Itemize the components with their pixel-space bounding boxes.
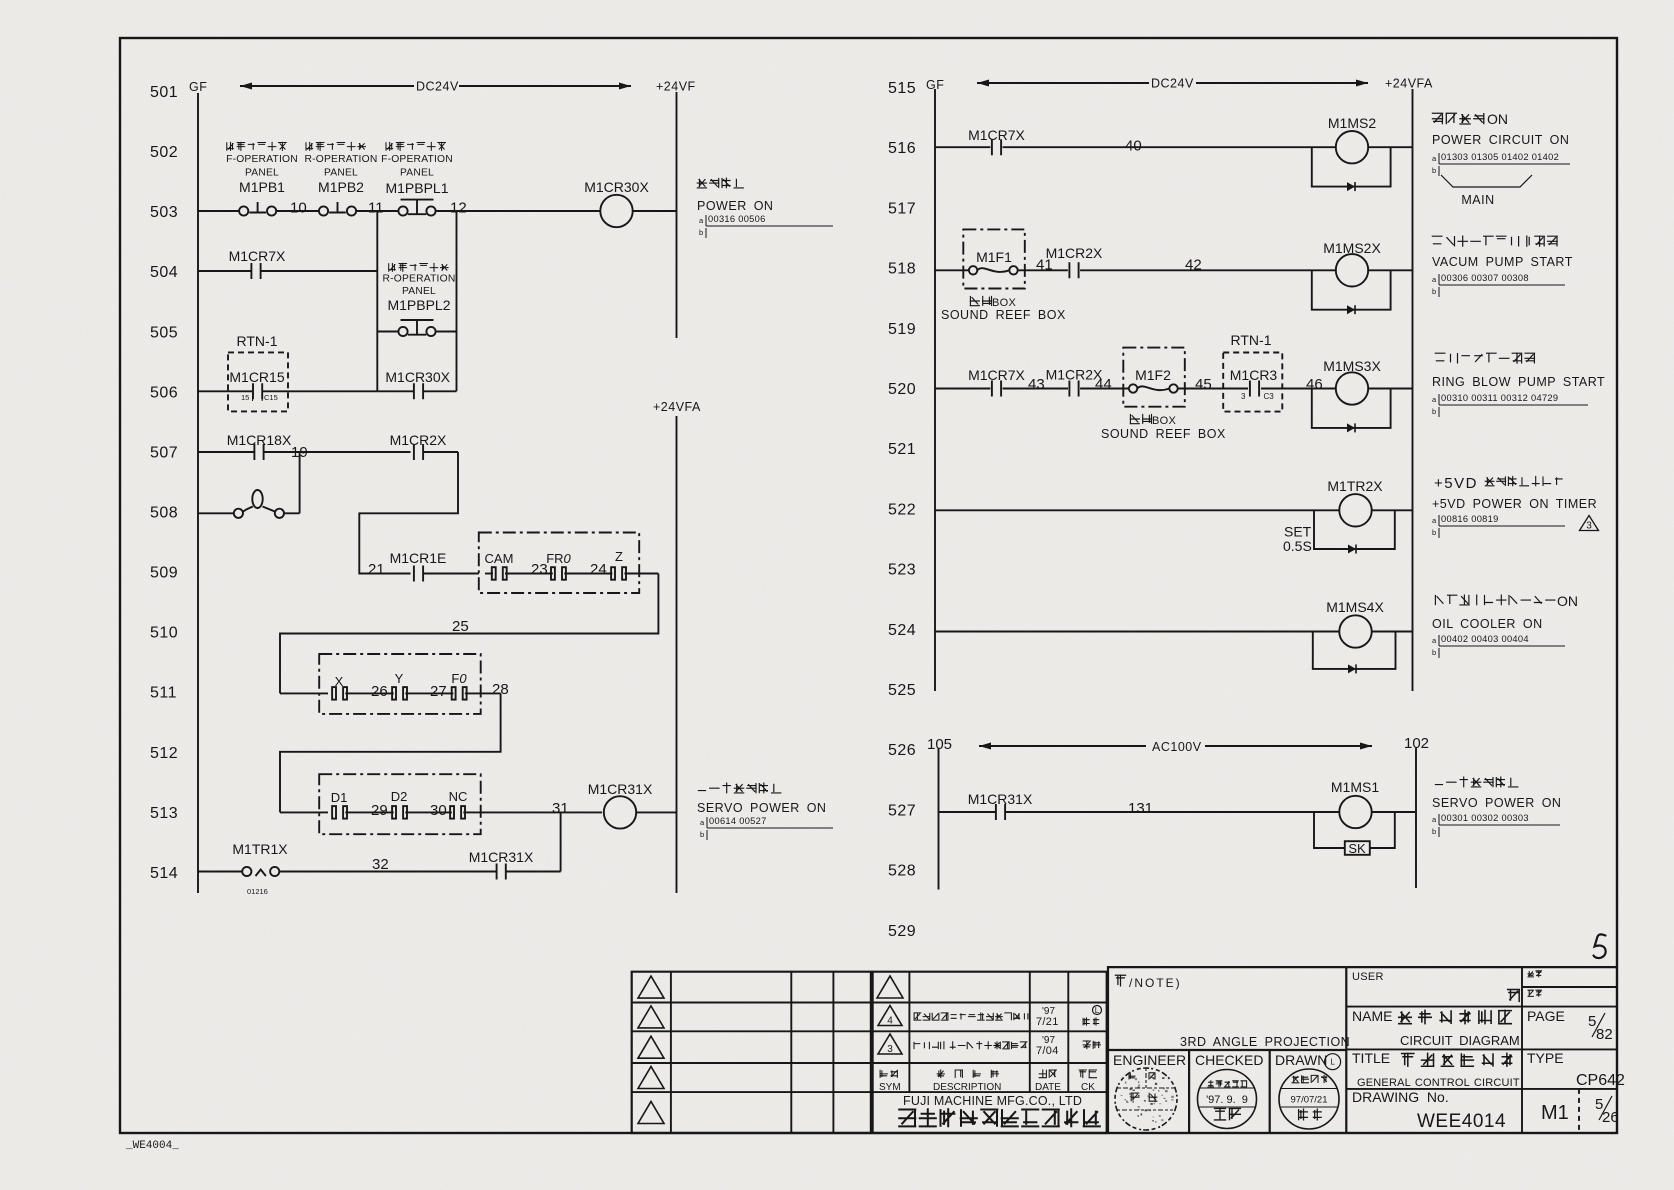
svg-text:AC100V: AC100V bbox=[1152, 740, 1202, 754]
svg-text:00310 00311 00312 04729: 00310 00311 00312 04729 bbox=[1441, 393, 1558, 403]
wire rung513 c bbox=[405, 811, 452, 813]
wire rung503 segment d bbox=[435, 210, 600, 212]
svg-text:509: 509 bbox=[150, 565, 178, 582]
fuse M1F2 bbox=[1129, 384, 1137, 392]
label comment 防音BOX (M1F1) bbox=[970, 296, 993, 306]
svg-text:DATE: DATE bbox=[1035, 1082, 1061, 1093]
contact M1CR15 bbox=[253, 383, 262, 399]
svg-text:+24VF: +24VF bbox=[656, 80, 696, 94]
svg-text:M1CR3: M1CR3 bbox=[1230, 367, 1278, 383]
wire rung527 c bbox=[1372, 811, 1415, 813]
svg-text:GF: GF bbox=[189, 80, 207, 94]
svg-text:ENGINEER: ENGINEER bbox=[1113, 1052, 1186, 1068]
label 生番 bbox=[1528, 990, 1543, 997]
wire rung504 b bbox=[260, 270, 377, 272]
wire rung520 a bbox=[935, 388, 990, 390]
wire rung507 a bbox=[198, 451, 255, 453]
svg-text:SYM: SYM bbox=[879, 1082, 901, 1093]
wire rung518 a bbox=[935, 269, 969, 271]
label comment サーボ電源入り rung513 bbox=[698, 783, 782, 794]
svg-text:M1CR2X: M1CR2X bbox=[1046, 245, 1103, 261]
coil M1MS3X bbox=[1336, 372, 1368, 404]
wire rung522 a bbox=[935, 509, 1339, 511]
label comment 電源入り bbox=[697, 178, 744, 189]
svg-text:RING BLOW PUMP START: RING BLOW PUMP START bbox=[1432, 375, 1605, 389]
wire rung506 b bbox=[262, 390, 377, 392]
svg-text:ON: ON bbox=[1487, 111, 1508, 127]
svg-text:526: 526 bbox=[888, 742, 916, 759]
svg-text:RTN-1: RTN-1 bbox=[237, 333, 278, 349]
SK branch M1MS1 bbox=[1314, 812, 1344, 848]
svg-text:C3: C3 bbox=[1264, 392, 1275, 401]
svg-text:508: 508 bbox=[150, 504, 178, 521]
svg-text:00402 00403 00404: 00402 00403 00404 bbox=[1441, 634, 1529, 644]
label comment バキュームポンプ起動 bbox=[1432, 236, 1558, 247]
wire rung520 b bbox=[1003, 388, 1068, 390]
wire rung527 a bbox=[938, 811, 997, 813]
svg-text:M1PB1: M1PB1 bbox=[239, 179, 285, 195]
svg-text:b: b bbox=[1432, 528, 1436, 537]
svg-text:82: 82 bbox=[1596, 1026, 1613, 1043]
contact M1CR31X rung527 bbox=[996, 804, 1005, 820]
svg-text:b: b bbox=[699, 228, 703, 237]
svg-text:+5VD: +5VD bbox=[1434, 475, 1478, 492]
wire AC100V arrow bbox=[979, 745, 1372, 747]
svg-text:SERVO POWER ON: SERVO POWER ON bbox=[1432, 796, 1561, 810]
svg-text:25: 25 bbox=[452, 618, 469, 635]
wire rung511 a bbox=[280, 692, 328, 694]
svg-text:L: L bbox=[1095, 1006, 1100, 1015]
wire rung524 b bbox=[1372, 631, 1413, 633]
contact Y bbox=[392, 687, 396, 700]
svg-text:Z: Z bbox=[615, 549, 623, 564]
label 電気回路線図 bbox=[1398, 1010, 1512, 1025]
svg-text:503: 503 bbox=[150, 204, 178, 221]
revision triangle left row3 bbox=[638, 1036, 664, 1058]
wire rung503 segment a bbox=[198, 210, 240, 212]
dashed box M1F1 bbox=[963, 229, 1025, 288]
svg-text:501: 501 bbox=[150, 84, 178, 101]
svg-text:21: 21 bbox=[368, 561, 385, 578]
svg-text:OIL COOLER ON: OIL COOLER ON bbox=[1432, 617, 1543, 631]
svg-text:SK: SK bbox=[1348, 841, 1366, 856]
svg-text:46: 46 bbox=[1306, 376, 1323, 393]
svg-text:b: b bbox=[1432, 287, 1436, 296]
svg-text:30: 30 bbox=[430, 802, 447, 819]
wire rung507 c bbox=[423, 451, 459, 453]
svg-text:NC: NC bbox=[449, 789, 468, 804]
contact CAM bbox=[492, 567, 496, 580]
wire rung514 a bbox=[198, 871, 243, 873]
revision table left frame bbox=[632, 972, 871, 1133]
contact M1CR30X rung506 bbox=[414, 383, 423, 399]
svg-text:b: b bbox=[1432, 407, 1436, 416]
wire rung516 c bbox=[1368, 146, 1412, 148]
label comment 操作パネル後 (M1PB2) bbox=[306, 142, 366, 151]
svg-text:12: 12 bbox=[450, 200, 467, 217]
svg-text:POWER ON: POWER ON bbox=[697, 199, 773, 213]
svg-text:517: 517 bbox=[888, 200, 916, 217]
wire left bus right column bbox=[934, 89, 936, 691]
contact M1CR18X bbox=[254, 444, 263, 460]
svg-text:DRAWING No.: DRAWING No. bbox=[1352, 1089, 1449, 1105]
svg-text:GENERAL CONTROL CIRCUIT: GENERAL CONTROL CIRCUIT bbox=[1357, 1077, 1520, 1089]
svg-text:515: 515 bbox=[888, 80, 916, 97]
svg-text:97/07/21: 97/07/21 bbox=[1291, 1095, 1328, 1106]
wire rung513 d bbox=[463, 811, 602, 813]
label comment リングブロー起動 bbox=[1435, 353, 1535, 364]
svg-text:D1: D1 bbox=[331, 790, 348, 805]
svg-text:504: 504 bbox=[150, 264, 178, 281]
svg-text:32: 32 bbox=[372, 856, 389, 873]
svg-text:M1F2: M1F2 bbox=[1135, 367, 1171, 383]
svg-text:SOUND REEF BOX: SOUND REEF BOX bbox=[1101, 427, 1226, 441]
svg-text:M1CR7X: M1CR7X bbox=[968, 367, 1025, 383]
svg-text:43: 43 bbox=[1028, 376, 1045, 393]
note box frame bbox=[1108, 967, 1346, 1050]
wire left bus AC section bbox=[938, 748, 940, 890]
svg-text:511: 511 bbox=[150, 685, 177, 702]
wire rung524 a bbox=[935, 631, 1339, 633]
coil M1TR2X bbox=[1339, 494, 1371, 526]
wire rung522 b bbox=[1372, 509, 1413, 511]
svg-text:DRAWN: DRAWN bbox=[1275, 1052, 1327, 1068]
svg-text:+24VFA: +24VFA bbox=[1385, 77, 1433, 91]
svg-text:SERVO POWER ON: SERVO POWER ON bbox=[697, 801, 826, 815]
label 分番 bbox=[1528, 970, 1543, 977]
svg-text:24: 24 bbox=[590, 561, 607, 578]
svg-text:TYPE: TYPE bbox=[1527, 1050, 1564, 1066]
svg-text:M1TR1X: M1TR1X bbox=[232, 841, 288, 857]
wire rung509 e bbox=[624, 573, 658, 575]
wire junction 11 vertical bbox=[376, 211, 378, 391]
svg-text:00816 00819: 00816 00819 bbox=[1441, 514, 1499, 524]
contact M1CR2X rung518 bbox=[1069, 262, 1078, 278]
svg-text:3RD ANGLE PROJECTION: 3RD ANGLE PROJECTION bbox=[1180, 1035, 1350, 1049]
svg-text:PAGE: PAGE bbox=[1527, 1008, 1565, 1024]
dashed box RTN-1 right bbox=[1223, 353, 1282, 412]
svg-text:514: 514 bbox=[150, 865, 178, 882]
svg-text:M1CR7X: M1CR7X bbox=[229, 248, 286, 264]
wire right bus +24VF upper bbox=[676, 92, 678, 338]
svg-text:CHECKED: CHECKED bbox=[1195, 1052, 1263, 1068]
revision triangle left row2 bbox=[638, 1006, 664, 1028]
wire rung520 d bbox=[1261, 388, 1336, 390]
svg-text:BOX: BOX bbox=[1152, 415, 1176, 427]
svg-text:513: 513 bbox=[150, 805, 178, 822]
svg-text:131: 131 bbox=[1128, 800, 1153, 817]
wire rung511 c bbox=[405, 692, 453, 694]
svg-text:11: 11 bbox=[368, 200, 384, 217]
svg-text:44: 44 bbox=[1095, 376, 1112, 393]
wire rung503 to bus bbox=[633, 210, 677, 212]
svg-text:7/21: 7/21 bbox=[1036, 1016, 1059, 1028]
svg-text:DC24V: DC24V bbox=[1151, 77, 1194, 91]
approval row frame bbox=[1108, 1050, 1346, 1133]
wire rung509 b bbox=[423, 573, 479, 575]
svg-text:D2: D2 bbox=[391, 789, 408, 804]
svg-text:b: b bbox=[1432, 827, 1436, 836]
svg-text:M1PBPL2: M1PBPL2 bbox=[387, 297, 450, 313]
svg-text:FR0: FR0 bbox=[546, 551, 571, 566]
svg-text:M1CR30X: M1CR30X bbox=[385, 369, 450, 385]
svg-text:529: 529 bbox=[888, 923, 916, 940]
revision table mid frame bbox=[873, 972, 1107, 1133]
wire rung518 c bbox=[1080, 269, 1336, 271]
svg-text:519: 519 bbox=[888, 321, 916, 338]
svg-text:516: 516 bbox=[888, 140, 916, 157]
svg-text:M1MS1: M1MS1 bbox=[1331, 779, 1379, 795]
svg-text:C15: C15 bbox=[264, 393, 278, 402]
dashed box CAM FR0 Z bbox=[479, 533, 639, 594]
wire rung511 b bbox=[345, 692, 393, 694]
svg-text:PANEL: PANEL bbox=[245, 168, 279, 179]
svg-text:M1: M1 bbox=[1541, 1102, 1569, 1124]
svg-text:'97. 9. 9: '97. 9. 9 bbox=[1206, 1094, 1248, 1106]
label 殿 bbox=[1507, 989, 1520, 1002]
svg-text:M1CR7X: M1CR7X bbox=[968, 127, 1025, 143]
svg-text:23: 23 bbox=[531, 561, 548, 578]
revision desc row3 ハンディターミナル型式変更 bbox=[914, 1041, 1027, 1049]
contact M1CR3 bbox=[1250, 381, 1259, 397]
wire rung511 d bbox=[465, 692, 501, 694]
wire bend M1CR2X to rung509 bbox=[359, 452, 458, 574]
svg-text:M1MS4X: M1MS4X bbox=[1326, 599, 1384, 615]
label comment 動力電源ON bbox=[1432, 113, 1485, 124]
svg-text:M1CR18X: M1CR18X bbox=[227, 432, 292, 448]
contact M1CR2X rung520 bbox=[1069, 381, 1078, 397]
svg-text:M1CR31X: M1CR31X bbox=[469, 849, 534, 865]
svg-text:512: 512 bbox=[150, 745, 178, 762]
revision triangle 3 note bbox=[1580, 516, 1599, 531]
svg-text:524: 524 bbox=[888, 622, 916, 639]
info block frame bbox=[1346, 967, 1617, 1133]
wire rung509 c bbox=[505, 573, 553, 575]
svg-text:M1TR2X: M1TR2X bbox=[1327, 478, 1383, 494]
svg-text:M1MS2: M1MS2 bbox=[1328, 115, 1376, 131]
label comment サーボ電源入り rung527 bbox=[1435, 777, 1519, 788]
diode branch M1MS3X bbox=[1312, 389, 1391, 428]
label 注/NOTE bbox=[1115, 975, 1126, 987]
svg-text:522: 522 bbox=[888, 501, 916, 518]
pushbutton M1PB2 bbox=[319, 206, 328, 215]
svg-text:PANEL: PANEL bbox=[324, 168, 358, 179]
svg-text:00316 00506: 00316 00506 bbox=[708, 214, 766, 224]
svg-text:POWER CIRCUIT ON: POWER CIRCUIT ON bbox=[1432, 133, 1569, 147]
header 日付 bbox=[1039, 1069, 1057, 1078]
svg-text:F0: F0 bbox=[451, 671, 467, 686]
wire left bus GF bbox=[197, 93, 199, 893]
svg-text:528: 528 bbox=[888, 863, 916, 880]
wire rung516 a bbox=[935, 146, 990, 148]
svg-text:MAIN: MAIN bbox=[1461, 193, 1494, 207]
svg-text:26: 26 bbox=[371, 683, 388, 700]
svg-text:M1F1: M1F1 bbox=[976, 249, 1012, 265]
svg-text:00614 00527: 00614 00527 bbox=[709, 816, 767, 826]
wire DC24V arrow left column bbox=[240, 85, 631, 87]
diode branch M1MS2X bbox=[1312, 270, 1391, 309]
svg-text:523: 523 bbox=[888, 562, 916, 579]
stamp engineer bbox=[1115, 1068, 1177, 1130]
svg-text:b: b bbox=[1432, 166, 1436, 175]
svg-text:505: 505 bbox=[150, 324, 178, 341]
svg-text:b: b bbox=[1432, 648, 1436, 657]
svg-text:M1PBPL1: M1PBPL1 bbox=[385, 180, 448, 196]
fuse M1F1 bbox=[969, 266, 977, 274]
svg-text:M1PB2: M1PB2 bbox=[318, 179, 364, 195]
svg-text:3: 3 bbox=[1241, 392, 1246, 401]
label 総合制御回路 bbox=[1401, 1053, 1513, 1067]
wire rung513 b bbox=[345, 811, 393, 813]
svg-text:SOUND REEF BOX: SOUND REEF BOX bbox=[941, 308, 1066, 322]
svg-text:3: 3 bbox=[1586, 521, 1592, 532]
svg-text:527: 527 bbox=[888, 802, 916, 819]
revision triangle mid row1 bbox=[877, 976, 903, 998]
svg-text:518: 518 bbox=[888, 261, 916, 278]
svg-text:RTN-1: RTN-1 bbox=[1231, 332, 1272, 348]
pushbutton M1PBPL2 bbox=[398, 327, 407, 336]
svg-text:3: 3 bbox=[887, 1044, 893, 1055]
svg-text:M1CR2X: M1CR2X bbox=[390, 432, 447, 448]
pushbutton M1PBPL1 bbox=[398, 206, 407, 215]
wire rung506 a bbox=[198, 390, 252, 392]
svg-text:CK: CK bbox=[1081, 1082, 1095, 1093]
svg-text:R-OPERATION: R-OPERATION bbox=[383, 274, 456, 285]
diode branch M1MS2 bbox=[1312, 147, 1391, 186]
wire rung527 b bbox=[1005, 811, 1340, 813]
wire rung504 a bbox=[198, 270, 252, 272]
header 訂正記録 bbox=[937, 1069, 1000, 1078]
svg-text:USER: USER bbox=[1352, 971, 1384, 983]
svg-text:10: 10 bbox=[290, 200, 307, 217]
stamp checked bbox=[1198, 1070, 1257, 1129]
revision CK row3 鈴木 bbox=[1083, 1040, 1101, 1049]
svg-text:M1CR30X: M1CR30X bbox=[584, 179, 649, 195]
dashed box D1 D2 NC bbox=[319, 774, 481, 834]
label comment カム軸オイルクーラーON bbox=[1435, 595, 1555, 606]
label comment 防音BOX (M1F2) bbox=[1130, 414, 1153, 424]
revision CK row2 江坂 bbox=[1083, 1017, 1099, 1025]
label MAIN bracket bbox=[1441, 175, 1532, 187]
wire rung509 a2 bbox=[485, 573, 493, 575]
svg-text:L: L bbox=[1330, 1058, 1335, 1067]
svg-text:40: 40 bbox=[1125, 138, 1142, 155]
stamp drawn bbox=[1279, 1069, 1339, 1129]
contact Z bbox=[611, 567, 615, 580]
svg-text:TITLE: TITLE bbox=[1352, 1050, 1390, 1066]
wire rung509 d bbox=[564, 573, 612, 575]
contact FR0 bbox=[551, 567, 555, 580]
header 記号 bbox=[880, 1070, 898, 1078]
dashed box RTN-1 left bbox=[228, 352, 288, 411]
diode branch M1MS4X bbox=[1313, 632, 1396, 669]
wire rung511 to rung513 bend bbox=[280, 693, 501, 812]
svg-text:CIRCUIT DIAGRAM: CIRCUIT DIAGRAM bbox=[1400, 1033, 1520, 1048]
wire rung505 b bbox=[435, 331, 456, 333]
svg-text:b: b bbox=[700, 830, 704, 839]
svg-text:7/04: 7/04 bbox=[1036, 1045, 1059, 1057]
svg-text:01216: 01216 bbox=[247, 887, 268, 896]
svg-text:M1CR31X: M1CR31X bbox=[968, 791, 1033, 807]
wire junction 31 vertical bbox=[560, 812, 562, 871]
wire rung518 b bbox=[1018, 269, 1068, 271]
contact NC bbox=[450, 806, 454, 819]
svg-text:WEE4014: WEE4014 bbox=[1417, 1111, 1506, 1132]
wire rung514 c bbox=[505, 871, 560, 873]
coil M1MS4X bbox=[1339, 615, 1371, 647]
wire rung509 to rung510 bend bbox=[280, 574, 658, 694]
wire rung508 a bbox=[198, 512, 234, 514]
svg-text:F-OPERATION: F-OPERATION bbox=[226, 154, 298, 165]
svg-text:F-OPERATION: F-OPERATION bbox=[381, 154, 453, 165]
wire rung514 b bbox=[279, 871, 497, 873]
contact X bbox=[332, 687, 336, 700]
wire rung513 to bus bbox=[636, 811, 676, 813]
label comment 操作パネル前 (M1PBPL1) bbox=[386, 142, 446, 151]
svg-text:506: 506 bbox=[150, 384, 178, 401]
contact M1CR7X rung520 bbox=[992, 381, 1001, 397]
coil M1CR30X bbox=[600, 195, 632, 227]
svg-text:0.5S: 0.5S bbox=[1283, 538, 1312, 554]
coil M1MS1 bbox=[1339, 796, 1371, 828]
wire junction 12 vertical bbox=[456, 211, 458, 391]
revision desc row2 図面整備による全面差し替え bbox=[914, 1012, 1028, 1020]
svg-text:NAME: NAME bbox=[1352, 1008, 1392, 1024]
revision triangle left row5 bbox=[638, 1102, 664, 1124]
svg-text:VACUM PUMP START: VACUM PUMP START bbox=[1432, 255, 1573, 269]
diode branch M1TR2X bbox=[1314, 510, 1395, 549]
dashed box X Y F0 bbox=[319, 654, 481, 714]
svg-text:CAM: CAM bbox=[485, 551, 514, 566]
svg-text:15: 15 bbox=[241, 393, 249, 402]
handwritten page mark 5 bbox=[1594, 934, 1606, 958]
svg-text:M1CR15: M1CR15 bbox=[229, 369, 284, 385]
svg-text:521: 521 bbox=[888, 441, 916, 458]
svg-text:507: 507 bbox=[150, 444, 178, 461]
contact D1 bbox=[332, 806, 336, 819]
pushbutton M1PB1 bbox=[239, 206, 248, 215]
label comment 操作パネル後 (M1PBPL2) bbox=[389, 263, 449, 272]
svg-text:105: 105 bbox=[927, 736, 952, 753]
wire rung505 a bbox=[377, 331, 399, 333]
wire rung516 b bbox=[1003, 146, 1336, 148]
wire rung507 b bbox=[263, 451, 411, 453]
wire DC24V arrow right column bbox=[977, 82, 1368, 84]
coil M1MS2X bbox=[1336, 254, 1368, 286]
svg-text:+5VD POWER ON TIMER: +5VD POWER ON TIMER bbox=[1432, 497, 1597, 511]
wire right bus AC section bbox=[1415, 748, 1417, 888]
svg-text:00306 00307 00308: 00306 00307 00308 bbox=[1441, 273, 1529, 283]
svg-text:01303 01305 01402 01402: 01303 01305 01402 01402 bbox=[1441, 152, 1559, 162]
wire right bus right column bbox=[1412, 89, 1414, 691]
revision CK row2 circled L bbox=[1093, 1006, 1102, 1015]
svg-text:/NOTE): /NOTE) bbox=[1129, 976, 1182, 990]
contact M1CR1E bbox=[414, 566, 423, 582]
svg-text:4: 4 bbox=[887, 1016, 893, 1027]
svg-text:510: 510 bbox=[150, 625, 178, 642]
company 富士機械製造株式会社 bbox=[898, 1108, 1101, 1127]
contact D2 bbox=[392, 806, 396, 819]
header 担当 bbox=[1079, 1069, 1097, 1078]
svg-text:PANEL: PANEL bbox=[402, 286, 436, 297]
dashed box M1F2 bbox=[1123, 348, 1185, 407]
wire rung518 d bbox=[1368, 269, 1412, 271]
coil M1CR31X bbox=[604, 796, 636, 828]
svg-text:45: 45 bbox=[1195, 376, 1212, 393]
revision triangle mid 3 bbox=[878, 1034, 902, 1054]
svg-text:PANEL: PANEL bbox=[400, 168, 434, 179]
revision triangle mid 4 bbox=[878, 1006, 902, 1026]
